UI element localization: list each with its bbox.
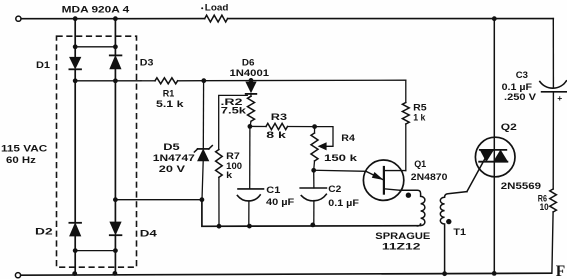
svg-text:R1: R1 bbox=[163, 89, 175, 99]
svg-text:C1: C1 bbox=[266, 185, 280, 195]
svg-text:1N4001: 1N4001 bbox=[230, 68, 270, 78]
svg-text:+: + bbox=[557, 93, 562, 103]
svg-text:115 VAC: 115 VAC bbox=[1, 144, 48, 154]
svg-text:SPRAGUE: SPRAGUE bbox=[375, 231, 430, 241]
svg-text:60 Hz: 60 Hz bbox=[6, 155, 36, 165]
svg-text:8 k: 8 k bbox=[266, 130, 287, 140]
svg-text:D2: D2 bbox=[35, 226, 53, 236]
svg-text:2N4870: 2N4870 bbox=[411, 172, 448, 182]
svg-text:11Z12: 11Z12 bbox=[382, 242, 421, 252]
svg-text:150 k: 150 k bbox=[324, 153, 358, 163]
svg-text:20 V: 20 V bbox=[159, 164, 186, 174]
svg-text:Q1: Q1 bbox=[414, 159, 426, 169]
svg-text:C2: C2 bbox=[328, 184, 341, 194]
svg-text:0.1 µF: 0.1 µF bbox=[328, 198, 359, 208]
svg-text:k: k bbox=[226, 170, 233, 180]
svg-text:F: F bbox=[556, 263, 565, 279]
svg-text:D6: D6 bbox=[242, 58, 255, 68]
svg-text:40 µF: 40 µF bbox=[266, 197, 295, 207]
svg-text:R7: R7 bbox=[226, 151, 240, 161]
svg-text:1 k: 1 k bbox=[413, 113, 426, 123]
svg-text:2N5569: 2N5569 bbox=[501, 181, 541, 191]
svg-text:Load: Load bbox=[205, 3, 229, 13]
svg-text:0.1 µF: 0.1 µF bbox=[502, 82, 533, 92]
svg-text:5.1 k: 5.1 k bbox=[156, 99, 185, 109]
svg-text:D4: D4 bbox=[140, 228, 158, 238]
svg-text:D1: D1 bbox=[36, 60, 50, 70]
svg-text:MDA 920A 4: MDA 920A 4 bbox=[62, 5, 131, 15]
svg-text:.250 V: .250 V bbox=[504, 92, 537, 102]
svg-text:R3: R3 bbox=[271, 112, 287, 122]
svg-text:R5: R5 bbox=[413, 103, 427, 113]
svg-text:Q2: Q2 bbox=[501, 122, 517, 132]
svg-text:10: 10 bbox=[540, 202, 549, 212]
svg-text:1N4747: 1N4747 bbox=[153, 153, 195, 163]
svg-text:C3: C3 bbox=[516, 70, 528, 80]
svg-text:R4: R4 bbox=[341, 133, 356, 143]
svg-text:D3: D3 bbox=[140, 57, 154, 67]
svg-text:T1: T1 bbox=[453, 227, 466, 237]
svg-text:7.5k: 7.5k bbox=[221, 105, 247, 115]
svg-text:D5: D5 bbox=[163, 142, 179, 152]
